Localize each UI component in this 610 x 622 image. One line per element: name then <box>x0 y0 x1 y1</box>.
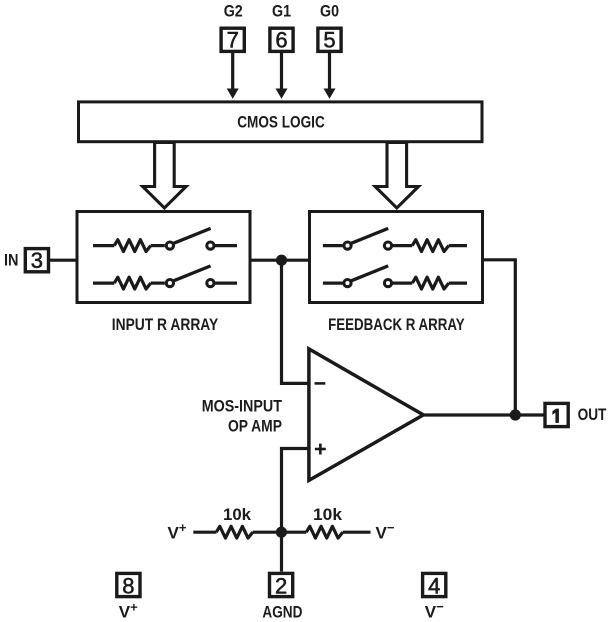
wire G1 arrow to CMOS logic <box>276 53 288 99</box>
svg-text:G2: G2 <box>224 2 243 21</box>
wire op-amp output to pin 1 <box>423 413 545 416</box>
wire pin3 to input array <box>49 259 78 262</box>
svg-text:OUT: OUT <box>578 405 607 424</box>
svg-text:6: 6 <box>275 28 287 53</box>
svg-text:5: 5 <box>323 28 335 53</box>
svg-text:G0: G0 <box>320 2 339 21</box>
node AGND junction dot <box>276 527 287 538</box>
svg-text:8: 8 <box>122 574 134 599</box>
wire feedback array to output node <box>484 260 515 415</box>
resistor 10k left <box>216 505 252 538</box>
svg-text:4: 4 <box>428 574 440 599</box>
svg-text:FEEDBACK R ARRAY: FEEDBACK R ARRAY <box>328 315 465 334</box>
switch input array row 2 <box>166 266 237 287</box>
svg-text:10k: 10k <box>313 505 343 524</box>
svg-text:INPUT R ARRAY: INPUT R ARRAY <box>112 315 219 334</box>
pin box 6 <box>270 28 293 53</box>
pin box 1 <box>545 403 568 426</box>
wire G0 arrow to CMOS logic <box>324 53 336 99</box>
svg-text:CMOS LOGIC: CMOS LOGIC <box>237 113 325 132</box>
op-amp U1 <box>309 349 424 481</box>
wire right resistor to V- <box>343 531 371 534</box>
pin box 4 <box>423 573 446 598</box>
wire V+ to resistor <box>193 531 216 534</box>
wire left resistor to AGND node <box>253 531 307 534</box>
op-amp label <box>202 397 283 436</box>
svg-text:AGND: AGND <box>262 602 302 621</box>
pin box 2 <box>270 573 293 598</box>
svg-text:MOS-INPUT: MOS-INPUT <box>202 397 283 416</box>
resistor 10k right <box>306 505 342 538</box>
switch input array row 1 <box>166 228 237 249</box>
input R array box <box>77 212 250 303</box>
feedback R array box <box>310 212 483 303</box>
pin box 8 <box>117 573 140 598</box>
block arrow to feedback R array <box>375 143 418 209</box>
svg-text:OP AMP: OP AMP <box>228 417 282 436</box>
node output junction dot <box>510 409 521 420</box>
pin box 3 <box>25 248 48 273</box>
CMOS logic block <box>79 102 483 142</box>
pin box 7 <box>221 28 244 53</box>
svg-text:10k: 10k <box>223 505 252 524</box>
resistor input array row 1 <box>93 240 165 252</box>
svg-text:G1: G1 <box>272 2 291 21</box>
svg-text:2: 2 <box>275 574 287 599</box>
wire G2 arrow to CMOS logic <box>227 53 239 99</box>
resistor input array row 2 <box>93 277 165 289</box>
pin box 5 <box>318 28 341 53</box>
resistor feedback array row 1 <box>412 240 467 252</box>
switch feedback array row 1 <box>323 228 412 249</box>
wire input array to feedback array <box>252 259 310 262</box>
wire summing node down to op-amp inverting input <box>282 260 311 383</box>
switch feedback array row 2 <box>323 266 412 287</box>
svg-text:IN: IN <box>4 250 19 269</box>
block arrow to input R array <box>143 143 186 209</box>
svg-text:7: 7 <box>227 28 239 53</box>
wire op-amp noninverting input <box>282 449 311 572</box>
svg-text:3: 3 <box>31 248 43 273</box>
resistor feedback array row 2 <box>412 277 467 289</box>
node A junction dot <box>276 255 287 266</box>
